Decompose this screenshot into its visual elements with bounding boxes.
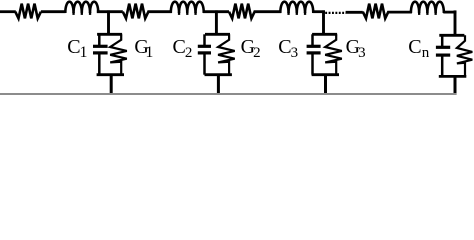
wire R2 to L2 [147,10,171,13]
capacitor C1 top plate [93,45,108,48]
circuit schematic: RLGC transmission-line ladder network [0,0,474,97]
inductor L2 [171,2,204,13]
svg-text:n: n [422,45,430,61]
svg-text:1: 1 [145,44,153,61]
conductance G1 zigzag [110,34,127,74]
wire Ln to right end [443,11,456,14]
branch 2 top bar [205,33,230,36]
capacitor Cn bottom plate [436,53,450,56]
capacitor C2 top plate [198,45,211,48]
node n vertical wire [454,10,457,35]
wire L3 to node 3 [313,10,325,13]
wire branch 3 to ground rail [324,75,327,95]
capacitor Cn bottom lead [441,56,444,76]
wire branch n to ground rail / right end vertical [454,76,457,95]
resistor R3 [229,4,255,19]
wire R3 to L3 [254,10,282,13]
inductor Ln [411,2,444,13]
wire L2 to R3 through node 2 [203,10,229,13]
resistor Rn [363,4,389,19]
branch n top bar [439,34,464,37]
capacitor C3 bottom plate [307,51,321,54]
svg-text:C: C [408,36,421,58]
wire L1 to R2 through node 1 [97,10,123,13]
wire dots to Rn [346,11,363,14]
wire branch 2 to ground rail [217,75,220,95]
svg-text:3: 3 [358,45,366,61]
conductance Gn zigzag [457,35,472,76]
branch n bottom bar [439,75,467,78]
branch 1 top bar [97,33,122,36]
wire R1 to L1 [41,10,66,13]
resistor R2 [123,4,149,19]
svg-text:2: 2 [253,45,261,61]
capacitor C1 bottom plate [93,51,108,54]
conductance G2 zigzag [218,34,235,74]
wire: input lead [0,10,16,13]
branch 1 bottom bar [97,73,124,76]
resistor R1 [15,4,41,19]
capacitor C2 top lead [203,34,206,45]
branch 3 top bar [312,33,337,36]
capacitor Cn top lead [441,35,444,46]
node 3 vertical wire [322,10,325,34]
node 1 vertical wire [107,10,110,34]
dotted continuation wire [325,12,346,14]
inductor L3 [280,2,313,13]
capacitor C1 top lead [98,34,101,45]
svg-text:C: C [173,36,186,58]
inductor L1 [65,2,98,13]
capacitor C1 bottom lead [98,54,101,75]
ground return rail [0,93,456,95]
branch 2 bottom bar [205,73,232,76]
capacitor C2 bottom lead [203,54,206,75]
svg-text:3: 3 [291,45,299,61]
capacitor Cn top plate [436,46,450,49]
svg-text:1: 1 [80,44,88,61]
wire Rn to Ln [387,11,412,14]
capacitor C3 top lead [311,34,314,45]
capacitor C2 bottom plate [198,51,211,54]
branch 3 bottom bar [312,73,339,76]
wire branch 1 to ground rail [110,75,113,95]
capacitor C3 bottom lead [311,54,314,75]
node 2 vertical wire [215,10,218,34]
conductance G3 zigzag [325,34,342,74]
capacitor C3 top plate [307,45,321,48]
svg-text:2: 2 [185,45,193,61]
